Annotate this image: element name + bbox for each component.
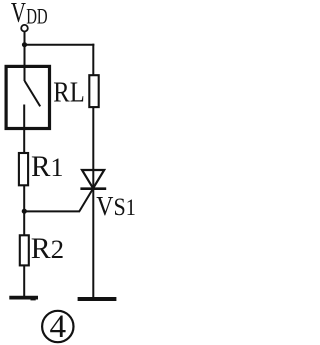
switch bottom lead / wire to R1: [23, 105, 25, 154]
svg-text:DD: DD: [26, 5, 47, 30]
wire RL to VS1 anode: [92, 107, 94, 170]
terminal VDD: [21, 25, 28, 32]
net VDD label: [11, 0, 48, 29]
resistor R2: [20, 235, 29, 265]
svg-text:VS1: VS1: [96, 190, 136, 221]
svg-text:R2: R2: [31, 232, 64, 265]
svg-text:RL: RL: [53, 76, 84, 108]
switch enclosure box: [6, 66, 49, 128]
label VS1: [96, 190, 136, 221]
svg-text:4: 4: [50, 308, 67, 345]
wire node A to switch box: [24, 45, 26, 67]
wire VS1 anode internal: [92, 169, 94, 188]
wire VDD terminal to node A: [24, 32, 26, 46]
wire node B to R2: [23, 211, 25, 235]
svg-text:R1: R1: [31, 151, 63, 183]
wire VS1 cathode to ground: [92, 189, 94, 297]
thyristor VS1 gate wire horizontal: [24, 210, 81, 212]
label RL: [53, 76, 84, 108]
resistor RL: [89, 75, 98, 107]
figure number circle: [42, 311, 73, 342]
wire R1 to node B: [23, 185, 25, 211]
figure number 4: [50, 308, 67, 345]
switch top contact lead: [24, 67, 26, 82]
wire R2 to ground: [23, 265, 25, 296]
label R2: [31, 232, 64, 265]
thyristor VS1 cathode bar: [80, 187, 106, 190]
wire node A horizontal to right branch: [25, 44, 95, 46]
junction node B: [22, 209, 27, 214]
wire right branch down to RL: [92, 44, 94, 75]
ground left: [9, 297, 38, 300]
resistor R1: [19, 153, 28, 185]
junction node A: [22, 42, 27, 47]
thyristor VS1 triangle: [82, 170, 104, 188]
ground right: [78, 297, 117, 301]
thyristor VS1 gate diagonal: [79, 189, 93, 211]
label R1: [31, 151, 63, 183]
switch blade: [25, 81, 41, 107]
